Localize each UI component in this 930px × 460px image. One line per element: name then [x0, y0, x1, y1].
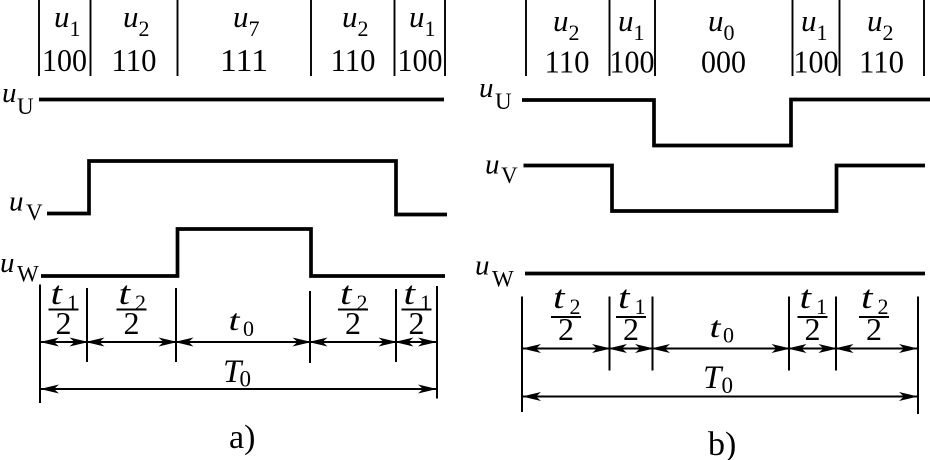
svg-text:u: u	[9, 186, 24, 218]
svg-text:V: V	[501, 163, 518, 188]
svg-text:U: U	[495, 89, 512, 114]
svg-text:100: 100	[42, 43, 87, 78]
svg-text:0: 0	[240, 367, 252, 392]
svg-text:110: 110	[331, 43, 376, 78]
svg-text:t: t	[710, 311, 722, 344]
svg-text:V: V	[26, 200, 43, 225]
svg-text:2: 2	[623, 311, 639, 347]
svg-text:2: 2	[345, 305, 361, 341]
svg-text:100: 100	[398, 43, 443, 78]
svg-text:0: 0	[722, 373, 734, 398]
svg-text:0: 0	[723, 323, 734, 348]
svg-text:W: W	[17, 262, 39, 287]
svg-text:2: 2	[866, 311, 882, 347]
svg-text:u: u	[479, 72, 494, 104]
svg-text:110: 110	[112, 43, 157, 78]
svg-text:u: u	[2, 77, 17, 109]
svg-text:2: 2	[558, 311, 574, 347]
svg-text:2: 2	[409, 305, 425, 341]
svg-text:u: u	[485, 149, 500, 181]
svg-text:100: 100	[794, 45, 839, 80]
svg-text:a): a)	[229, 419, 255, 456]
svg-text:U: U	[17, 94, 34, 119]
svg-text:W: W	[492, 267, 514, 292]
svg-text:u: u	[475, 250, 490, 282]
svg-text:110: 110	[859, 45, 904, 80]
svg-text:0: 0	[243, 316, 254, 341]
svg-text:2: 2	[805, 311, 821, 347]
svg-text:u: u	[0, 247, 15, 279]
svg-text:2: 2	[56, 305, 72, 341]
svg-text:t: t	[229, 304, 241, 337]
svg-text:2: 2	[124, 305, 140, 341]
svg-text:b): b)	[708, 426, 736, 460]
svg-text:111: 111	[220, 43, 268, 78]
svg-text:000: 000	[701, 45, 746, 80]
svg-text:100: 100	[610, 45, 655, 80]
svg-text:110: 110	[545, 45, 590, 80]
